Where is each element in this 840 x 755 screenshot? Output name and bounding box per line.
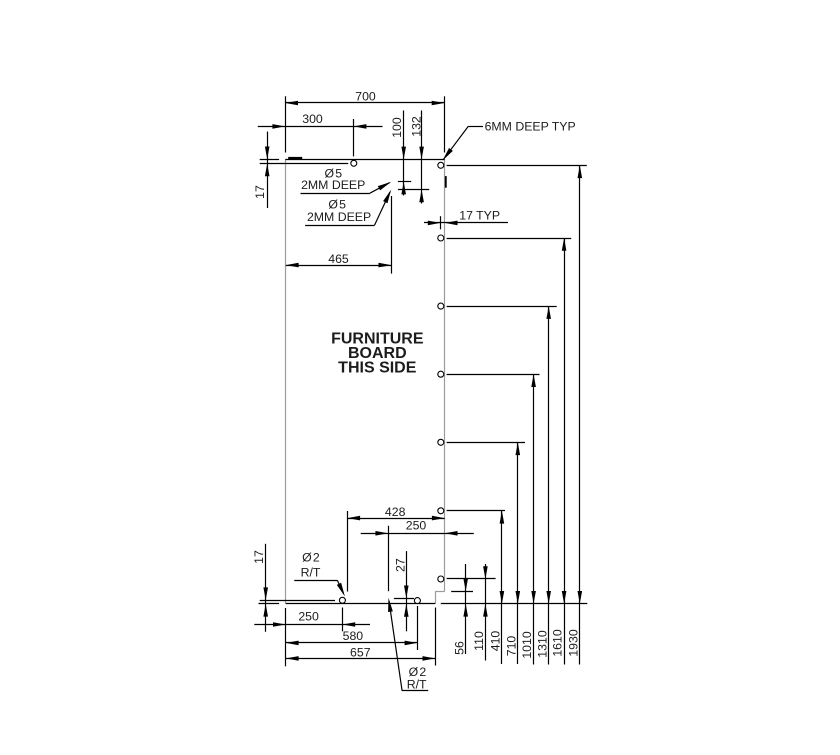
label D2 bottom leader arrow	[388, 598, 393, 612]
dim 17 TYP left arrow (outside)	[428, 221, 441, 226]
dim 1310 lower arrow	[546, 591, 551, 604]
extension line from hole at 710	[447, 442, 525, 444]
svg-text:580: 580	[343, 629, 364, 643]
extension line from hole at 1930	[447, 165, 587, 167]
dim 250 upper left extension	[388, 526, 390, 591]
dim 580 line	[286, 642, 418, 644]
hole right column (1930 from bottom)	[438, 162, 444, 168]
dim 250 upper left arrow (outside)	[375, 531, 388, 536]
dim 132 line	[421, 111, 423, 204]
dim 27 tick	[394, 598, 414, 600]
svg-text:465: 465	[328, 252, 349, 266]
panel notch vertical edge	[435, 591, 437, 604]
dim 300 left arrow (outside)	[272, 124, 285, 129]
edge band mark right side	[445, 176, 447, 188]
svg-text:17: 17	[252, 550, 266, 564]
dim 56 upper arrow (outside)	[463, 579, 468, 592]
hole right column (1310 from bottom)	[438, 303, 444, 309]
dim 1610 upper arrow	[562, 238, 567, 251]
dim 700 right arrow	[432, 101, 445, 106]
dim 27 upper arrow	[404, 586, 409, 599]
dim 710 line	[517, 442, 519, 664]
dim 27 line	[406, 551, 408, 631]
dim 100 upper arrow	[401, 147, 406, 160]
dim 132 upper arrow	[419, 147, 424, 160]
dim 300 line	[258, 126, 383, 128]
dim 657 line	[286, 658, 436, 660]
dim 1610 lower arrow	[562, 591, 567, 604]
dim 110 lower arrow (outside)	[483, 604, 488, 617]
dim 465 line	[286, 265, 392, 267]
label D2 left leader	[337, 580, 343, 593]
svg-text:THIS SIDE: THIS SIDE	[338, 360, 417, 377]
svg-text:1930: 1930	[566, 629, 580, 657]
dim 428 left arrow	[347, 516, 360, 521]
extension line from hole at 1010	[447, 374, 540, 376]
svg-text:R/T: R/T	[407, 678, 427, 692]
hole right column (1610 from bottom)	[438, 235, 444, 241]
dim 428 right arrow	[432, 516, 445, 521]
dim 1610 line	[564, 238, 566, 665]
dim 132 lower arrow	[419, 190, 424, 203]
dim 1310 line	[548, 306, 550, 664]
label D2 bottom leader	[389, 601, 402, 691]
dim 465 left arrow	[286, 263, 299, 268]
label lower leader arrow	[383, 190, 391, 204]
svg-text:17: 17	[253, 185, 267, 199]
dim 110 upper arrow (outside)	[483, 566, 488, 579]
hole bottom edge right (580 from left, D2 R/T)	[414, 598, 420, 604]
label upper leader arrow	[378, 182, 391, 191]
svg-text:2MM DEEP: 2MM DEEP	[301, 178, 365, 192]
svg-text:428: 428	[385, 505, 406, 519]
notch extension below	[435, 608, 437, 666]
label D2 left underline	[294, 580, 337, 582]
hole right column (1010 from bottom)	[438, 371, 444, 377]
panel left edge	[285, 159, 287, 603]
dim 250 upper right arrow (outside)	[445, 531, 458, 536]
dim 17 bottom-left upper arrow	[263, 587, 268, 600]
dim 17 bottom-left line	[265, 544, 267, 632]
dim 100 line	[403, 111, 405, 196]
dim 56 lower arrow (outside)	[463, 604, 468, 617]
dim 710 upper arrow	[516, 442, 521, 455]
dim 250 upper line	[361, 533, 474, 535]
label D2 left leader arrow	[337, 583, 345, 597]
dim 1310 upper arrow	[546, 306, 551, 319]
svg-text:56: 56	[452, 641, 466, 655]
dim 17 TYP line	[424, 222, 508, 224]
label upper underline	[301, 193, 370, 195]
top edge extension tick left	[260, 159, 279, 161]
dim 410 lower arrow	[500, 591, 505, 604]
svg-text:250: 250	[406, 518, 427, 532]
svg-text:410: 410	[489, 631, 503, 652]
hole right column (710 from bottom)	[438, 439, 444, 445]
svg-text:6MM DEEP TYP: 6MM DEEP TYP	[485, 119, 576, 133]
dim 27 lower arrow	[404, 604, 409, 617]
dim 657 right arrow	[423, 656, 436, 661]
extension tick for 56 (notch step)	[451, 591, 473, 593]
svg-text:710: 710	[504, 636, 518, 657]
extension line from hole at 1310	[447, 306, 557, 308]
dim 1010 line	[533, 374, 535, 664]
dim 300 right extension	[353, 119, 355, 156]
top hole centre line extended left	[260, 163, 349, 165]
dim 700 left extension	[285, 96, 287, 152]
label lower underline	[305, 225, 374, 227]
dim 250 bottom line	[254, 624, 370, 626]
svg-text:250: 250	[298, 610, 319, 624]
hole1 extension below	[342, 608, 344, 632]
dim 700 line	[285, 102, 444, 104]
dim 250 bottom right arrow (outside)	[342, 622, 355, 627]
dim 17 top-left lower arrow	[265, 164, 270, 177]
dim 657 left arrow	[286, 656, 299, 661]
svg-text:100: 100	[390, 117, 404, 138]
dim 710 lower arrow	[516, 591, 521, 604]
svg-text:700: 700	[355, 89, 376, 103]
dim 465 right arrow	[379, 263, 392, 268]
hole right column (110 from bottom)	[438, 576, 444, 582]
baseline extension right of panel	[441, 603, 588, 605]
svg-text:27: 27	[393, 558, 407, 572]
bottom hole centre line extended left	[260, 600, 335, 602]
dim 1010 lower arrow	[531, 591, 536, 604]
hole2 extension below	[417, 606, 419, 650]
dim 1930 line	[579, 165, 581, 664]
svg-text:17 TYP: 17 TYP	[459, 209, 500, 223]
hole right column (410 from bottom)	[438, 508, 444, 514]
panel bottom edge	[286, 603, 435, 605]
dim 410 line	[501, 511, 503, 664]
dim 700 left arrow	[285, 101, 298, 106]
dim 100 tick at hole	[398, 181, 411, 183]
hole bottom edge left (250 from left, D2 R/T)	[339, 597, 345, 603]
dim 465 right extension	[391, 196, 393, 274]
dim 1930 lower arrow	[578, 591, 583, 604]
svg-text:110: 110	[472, 631, 486, 651]
svg-text:657: 657	[350, 646, 371, 660]
extension line from hole at 1610	[447, 238, 572, 240]
svg-text:1010: 1010	[520, 631, 534, 659]
extension line from hole at 410	[447, 510, 505, 512]
dim 56 line	[465, 564, 467, 654]
dim 17 top-left line	[267, 132, 269, 209]
dim 300 right arrow (outside)	[354, 124, 367, 129]
dim 1930 upper arrow	[578, 165, 583, 178]
svg-text:1610: 1610	[551, 629, 565, 657]
panel top edge	[285, 159, 444, 161]
dim 17 TYP tick	[440, 216, 442, 229]
dim 580 left arrow	[286, 641, 299, 646]
bottom edge extension tick left	[259, 603, 280, 605]
dim 17 top-left upper arrow	[265, 147, 270, 160]
dim 428 left extension	[347, 511, 349, 592]
panel notch step	[435, 591, 445, 593]
dim 580 right arrow	[405, 641, 418, 646]
left edge extension below	[285, 608, 287, 666]
svg-text:300: 300	[302, 112, 323, 126]
dim 250 bottom left arrow (outside)	[273, 622, 286, 627]
dim 410 upper arrow	[500, 511, 505, 524]
edge band mark top-left	[288, 157, 302, 159]
label 6MM leader arrow	[443, 148, 453, 161]
dim 700 right extension	[444, 96, 446, 152]
dim 17 TYP right arrow (outside)	[445, 221, 458, 226]
hole top edge (300 from left)	[351, 160, 357, 166]
dim 1010 upper arrow	[531, 374, 536, 387]
dim 100 lower arrow	[401, 182, 406, 195]
label lower leader	[375, 192, 391, 225]
dim 17 bottom-left lower arrow	[263, 604, 268, 617]
panel right edge	[444, 159, 446, 591]
svg-text:R/T: R/T	[301, 566, 321, 580]
dim 132 tick at hole	[398, 189, 429, 191]
svg-text:2MM DEEP: 2MM DEEP	[307, 210, 371, 224]
label 6MM leader horizontal	[468, 126, 483, 128]
label D2 bottom underline	[402, 690, 428, 692]
svg-text:Ø2: Ø2	[302, 551, 321, 565]
svg-text:1310: 1310	[535, 630, 549, 658]
svg-text:132: 132	[409, 116, 423, 137]
label 6MM leader slant	[444, 126, 469, 159]
dim 110 line	[485, 564, 487, 661]
extension line from hole at 110	[447, 578, 496, 580]
dim 428 line	[347, 518, 444, 520]
label upper leader	[370, 183, 390, 194]
